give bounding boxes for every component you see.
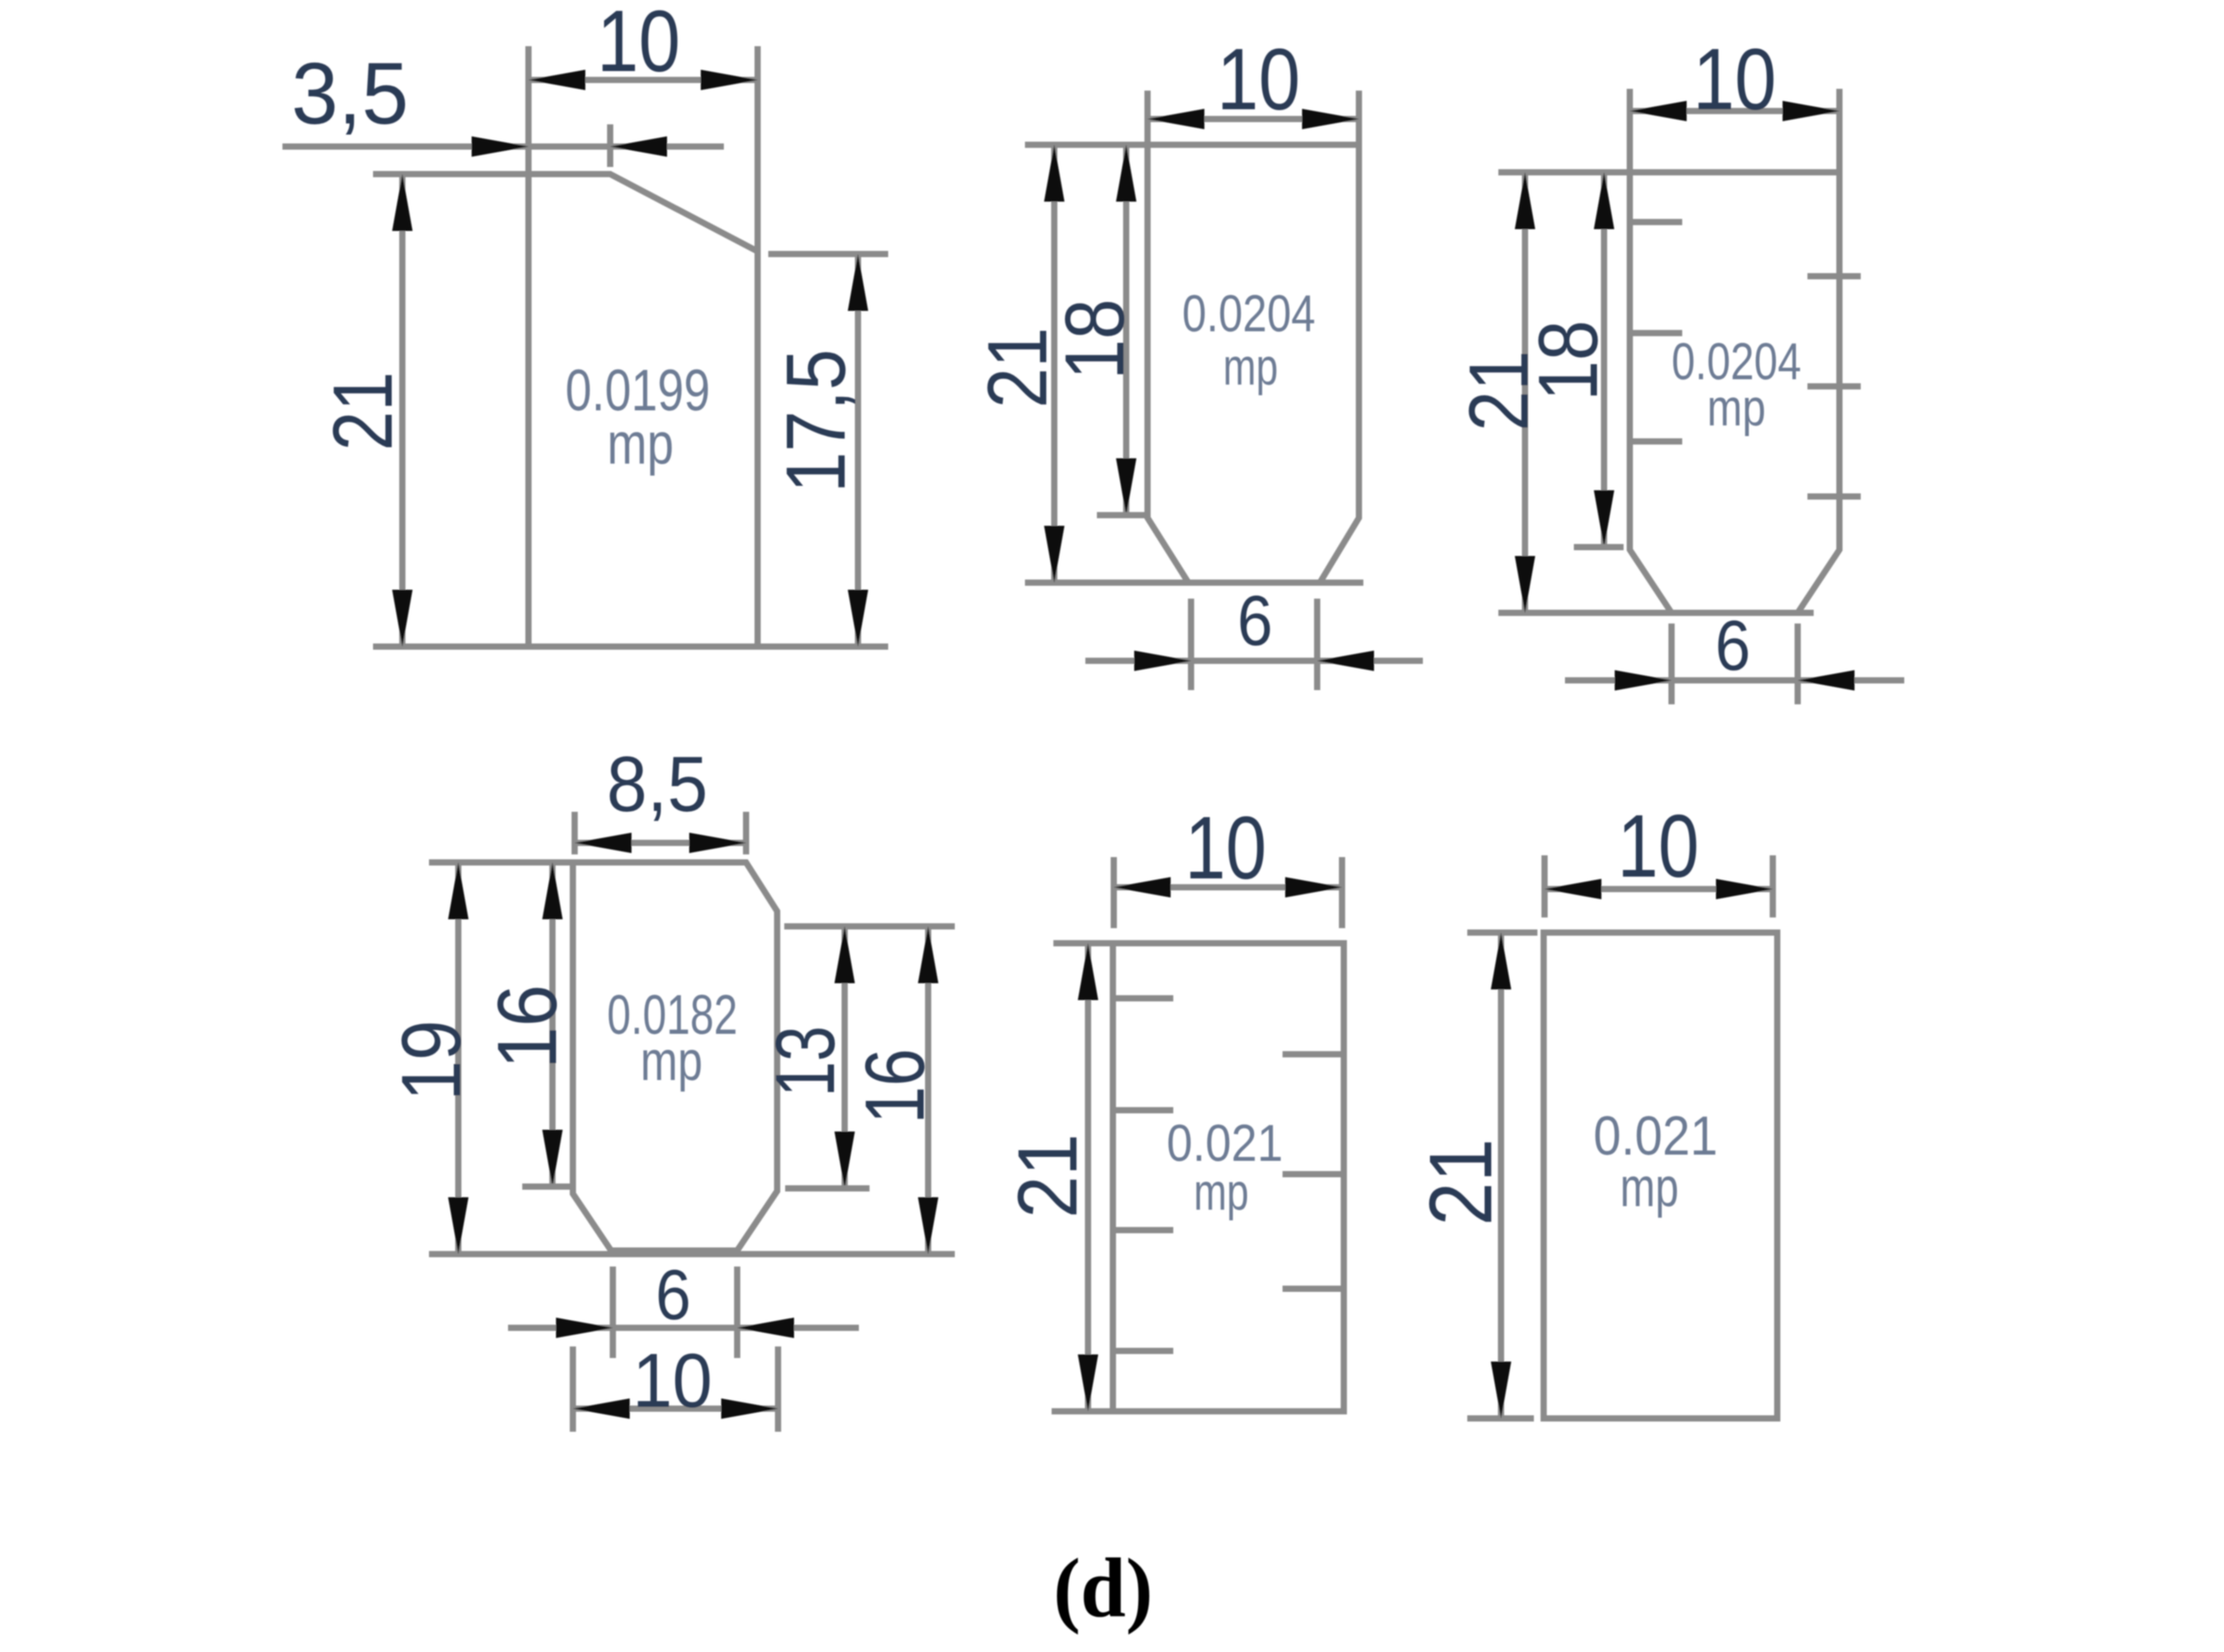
figure 4 dim 10: dimension line xyxy=(573,1406,778,1412)
figure 6 dim 10: dimension line xyxy=(1545,886,1773,893)
svg-text:6: 6 xyxy=(655,1255,691,1334)
figure 5 boundary tick right 2 xyxy=(1283,1171,1344,1178)
figure 6 dim 10: left arrowhead xyxy=(1545,879,1601,900)
svg-text:10: 10 xyxy=(597,0,680,90)
figure 3 dim 21: top arrowhead xyxy=(1515,172,1536,229)
figure 1 dim 10: left arrowhead xyxy=(528,70,585,91)
figure 2 dim 18: dimension line xyxy=(1124,145,1130,515)
svg-text:21: 21 xyxy=(316,372,410,451)
svg-text:13: 13 xyxy=(759,1026,853,1097)
figure 1 dim 17,5: top extension line xyxy=(768,251,888,258)
figure 3 dim 10: right extension line xyxy=(1837,89,1843,172)
svg-text:10: 10 xyxy=(1217,30,1300,128)
figure 1 dim 10: left extension line xyxy=(526,46,532,174)
figure 4 dim 16 left: dimension line xyxy=(550,862,556,1187)
svg-text:mp: mp xyxy=(1194,1164,1249,1221)
figure 3 dim 18: top arrowhead xyxy=(1594,172,1615,229)
figure 2 dim 21: bottom arrowhead xyxy=(1044,526,1065,583)
figure 3 boundary tick right 1 xyxy=(1807,274,1861,280)
figure 1 bottom extension line (shared datum, dims 21 and 17,5) xyxy=(373,644,888,650)
figure 4 dim 6: right extension line xyxy=(735,1267,741,1358)
figure 3 dim 18: bottom arrowhead xyxy=(1594,490,1615,547)
figure 2 dim 18: top arrowhead xyxy=(1116,145,1137,202)
svg-text:21: 21 xyxy=(1411,1139,1511,1226)
figure 3 dim 18: dimension line xyxy=(1601,172,1608,547)
svg-text:mp: mp xyxy=(608,410,674,476)
figure 3 dim 6: right arrowhead (points left) xyxy=(1798,671,1855,691)
svg-text:21: 21 xyxy=(1001,1134,1095,1219)
figure 2 dim 10: right extension line xyxy=(1356,91,1362,145)
figure 5 top extension line (datum for dim 21) xyxy=(1053,941,1113,947)
figure 3 boundary tick left 1 xyxy=(1630,219,1682,226)
svg-text:8,5: 8,5 xyxy=(607,740,708,828)
svg-text:10: 10 xyxy=(1185,798,1267,898)
figure 2 dim 6: right extension line xyxy=(1315,599,1321,690)
figure 1 top extension line (left of outline, datum for dim 21) xyxy=(373,171,528,178)
figure 5 plot outline (0.021 mp parcel, rectangle with boundary ticks) xyxy=(1113,943,1344,1411)
figure 3 dim 10: right arrowhead xyxy=(1783,101,1839,122)
svg-text:18: 18 xyxy=(1521,321,1616,401)
figure 2 dim 6: left extension line xyxy=(1188,599,1195,690)
figure 5 boundary tick left 3 xyxy=(1113,1227,1173,1234)
figure 4 dim 8,5: right arrowhead xyxy=(689,833,746,854)
figure 1 plot outline (0.0199 mp parcel) xyxy=(528,174,758,647)
figure 3 boundary tick right 2 xyxy=(1807,384,1861,390)
figure 5 boundary tick right 3 xyxy=(1283,1286,1344,1292)
figure 5 dim 10: dimension line xyxy=(1114,885,1342,891)
figure 4 dim 10: left extension line xyxy=(570,1346,576,1432)
svg-text:18: 18 xyxy=(1048,299,1142,380)
figure 4 dim 19: bottom arrowhead xyxy=(449,1197,469,1254)
figure 2 dim 10: left extension line xyxy=(1145,91,1151,145)
svg-text:mp: mp xyxy=(1620,1157,1679,1219)
figure 3 boundary tick left 3 xyxy=(1630,439,1682,445)
figure 4 dim 8,5: left arrowhead xyxy=(575,833,631,854)
figure 4 dim 13: bottom tick line xyxy=(785,1186,870,1192)
figure 5 boundary tick left 2 xyxy=(1113,1108,1173,1114)
figure 1 dim 21: top arrowhead xyxy=(393,174,413,231)
svg-text:19: 19 xyxy=(385,1021,479,1101)
figure 1 dim 3,5: left arrowhead (points right at outline edge) xyxy=(472,137,528,157)
figure 3 top extension line (datum for dims 21 and 18) xyxy=(1498,170,1630,176)
figure 3 dim 6: right extension line xyxy=(1795,623,1801,704)
figure 3 dim 18: bottom tick line xyxy=(1574,544,1624,551)
figure 2 dim 6: right arrowhead (points left) xyxy=(1317,651,1374,671)
figure 4 dim 8,5: left extension line xyxy=(572,812,578,854)
figure 6 dim 21: top arrowhead xyxy=(1491,933,1512,989)
figure 3 dim 6: left extension line xyxy=(1669,623,1675,704)
figure 6 dim 10: right arrowhead xyxy=(1716,879,1773,900)
figure 4 dim 13: bottom arrowhead xyxy=(835,1132,855,1188)
figure 4 dim 10: right arrowhead xyxy=(721,1399,778,1419)
figure 5 boundary tick left 1 xyxy=(1113,996,1173,1002)
figure 4 dim 8,5: dimension line xyxy=(575,840,746,846)
figure 4 dim 8,5: right extension line xyxy=(743,812,750,854)
figure 3 plot outline (0.0204 mp parcel, with boundary ticks) xyxy=(1630,172,1839,613)
svg-text:(d): (d) xyxy=(1053,1541,1153,1635)
figure 4 dim 10: right extension line xyxy=(775,1346,782,1432)
svg-text:3,5: 3,5 xyxy=(291,44,409,142)
figure 1 dim 3,5: dimension line with outside tails xyxy=(282,144,724,150)
figure 1 dim 10: right extension line xyxy=(755,46,761,251)
figure 3 dim 6: dimension line with outside tails xyxy=(1565,678,1904,684)
figure 3 dim 10: left extension line xyxy=(1627,89,1633,172)
figure 2 dim 21: dimension line xyxy=(1052,145,1058,583)
figure 4 dim 13: dimension line xyxy=(842,926,848,1188)
figure 3 dim 6: left arrowhead (points right) xyxy=(1615,671,1672,691)
figure 5 dim 10: right arrowhead xyxy=(1285,878,1342,898)
figure 1 dim 10: right arrowhead xyxy=(701,70,758,91)
figure 1 dim 10: dimension line xyxy=(528,77,758,83)
figure 3 dim 10: dimension line xyxy=(1630,108,1839,115)
figure 2 dim 18: bottom tick line xyxy=(1097,512,1146,519)
figure 2 dim 6: left arrowhead (points right) xyxy=(1134,651,1191,671)
svg-text:16: 16 xyxy=(481,985,575,1069)
figure 4 right top extension line (datum for dims 13 and 16) xyxy=(784,924,955,930)
figure 2 dim 18: bottom arrowhead xyxy=(1116,458,1137,515)
figure 4 dim 10: left arrowhead xyxy=(573,1399,630,1419)
figure 6 dim 21: dimension line xyxy=(1498,933,1505,1418)
svg-text:6: 6 xyxy=(1237,581,1273,660)
svg-text:mp: mp xyxy=(1707,379,1766,437)
figure 4 dim 6: right arrowhead (points left) xyxy=(737,1318,794,1338)
figure 4 dim 6: dimension line with outside tails xyxy=(508,1325,859,1331)
figure 4 dim 6: left extension line xyxy=(610,1267,616,1358)
figure 6 top extension line (datum for dim 21) xyxy=(1467,930,1537,936)
figure 4 bottom extension line (shared bottom datum) xyxy=(429,1251,955,1258)
figure 3 boundary tick left 2 xyxy=(1630,330,1682,337)
figure 1 dim 3,5: right arrowhead (points left at tick) xyxy=(610,137,667,157)
svg-text:mp: mp xyxy=(640,1030,703,1092)
figure 4 dim 13: top arrowhead xyxy=(835,926,855,983)
figure 4 dim 16 right: dimension line xyxy=(925,926,932,1254)
figure 6 plot outline (0.021 mp parcel, plain rectangle) xyxy=(1544,933,1777,1418)
figure 3 boundary tick right 3 xyxy=(1807,494,1861,500)
svg-text:10: 10 xyxy=(1617,797,1699,896)
figure 5 dim 10: left arrowhead xyxy=(1114,878,1171,898)
figure 3 dim 21: bottom arrowhead xyxy=(1515,556,1536,613)
svg-text:10: 10 xyxy=(1693,30,1776,128)
figure 1 dim 17,5: bottom arrowhead xyxy=(848,590,869,647)
figure 5 dim 10: right extension line xyxy=(1339,857,1346,928)
figure 1 dim 3,5: tick extension at chamfer start xyxy=(608,124,614,167)
figure 2 plot outline (0.0204 mp parcel) xyxy=(1148,145,1359,583)
figure 5 dim 21: bottom arrowhead xyxy=(1078,1354,1099,1411)
figure 1 dim 17,5: dimension line xyxy=(855,254,862,647)
figure 2 dim 10: dimension line xyxy=(1148,116,1359,123)
figure 6 dim 10: right extension line xyxy=(1770,855,1776,917)
figure 5 bottom extension line (datum for dim 21) xyxy=(1052,1409,1113,1415)
figure 5 dim 21: top arrowhead xyxy=(1078,943,1099,1000)
figure 4 dim 16 left: bottom arrowhead xyxy=(543,1130,563,1187)
svg-text:16: 16 xyxy=(848,1049,942,1124)
figure 2 top extension line (datum for dims 21 and 18) xyxy=(1025,142,1148,148)
figure 5 boundary tick left 4 xyxy=(1113,1348,1173,1354)
figure 3 bottom extension line (datum for dim 21) xyxy=(1498,610,1814,616)
figure 2 dim 10: left arrowhead xyxy=(1148,109,1204,130)
svg-text:0.0204: 0.0204 xyxy=(1182,285,1315,343)
figure 6 dim 21: bottom arrowhead xyxy=(1491,1362,1512,1418)
figure 5 dim 21: dimension line xyxy=(1085,943,1092,1411)
figure 6 dim 10: left extension line xyxy=(1542,855,1548,917)
figure 4 top extension line (datum for dims 19 and 16) xyxy=(429,860,573,866)
figure 5 boundary tick right 1 xyxy=(1283,1052,1344,1058)
figure 6 bottom extension line (datum for dim 21) xyxy=(1467,1416,1534,1422)
figure 2 dim 21: top arrowhead xyxy=(1044,145,1065,202)
figure 4 plot outline (0.0182 mp parcel) xyxy=(573,862,777,1251)
figure 1 dim 21: dimension line xyxy=(400,174,406,647)
figure 4 dim 16 left: bottom tick line xyxy=(522,1184,573,1190)
figure 4 dim 16 left: top arrowhead xyxy=(543,862,563,919)
figure 4 dim 16 right: top arrowhead xyxy=(918,926,939,983)
svg-text:10: 10 xyxy=(632,1338,712,1424)
figure 3 dim 10: left arrowhead xyxy=(1630,101,1687,122)
figure 2 dim 10: right arrowhead xyxy=(1302,109,1359,130)
figure 1 dim 21: bottom arrowhead xyxy=(393,590,413,647)
figure 3 dim 21: dimension line xyxy=(1522,172,1529,613)
figure 4 dim 19: dimension line xyxy=(456,862,462,1254)
figure 2 dim 6: dimension line with outside tails xyxy=(1085,658,1423,664)
figure 4 dim 19: top arrowhead xyxy=(449,862,469,919)
svg-text:6: 6 xyxy=(1715,606,1751,685)
svg-text:17,5: 17,5 xyxy=(769,349,863,493)
figure 4 dim 6: left arrowhead (points right) xyxy=(556,1318,613,1338)
figure 1 dim 17,5: top arrowhead xyxy=(848,254,869,311)
figure 5 dim 10: left extension line xyxy=(1111,857,1117,928)
figure 4 dim 16 right: bottom arrowhead xyxy=(918,1197,939,1254)
svg-text:mp: mp xyxy=(1223,338,1278,396)
figure 2 bottom extension line (datum for dim 21) xyxy=(1025,580,1363,586)
